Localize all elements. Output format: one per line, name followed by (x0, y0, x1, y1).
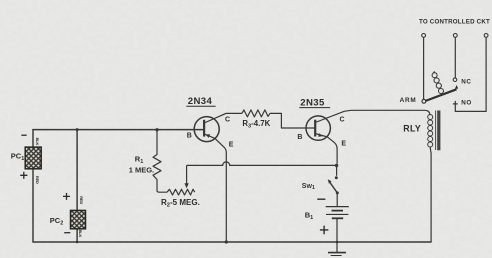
ground (328, 253, 346, 256)
relay armature arrow (455, 85, 458, 89)
label 2N34 (186, 96, 215, 107)
svg-text:TO CONTROLLED CKT: TO CONTROLLED CKT (419, 18, 490, 25)
relay core (436, 111, 441, 151)
label 2N35 (299, 98, 330, 109)
svg-text:NO: NO (461, 99, 471, 106)
switch SW1 (328, 164, 339, 207)
battery B1 (326, 207, 349, 253)
transistor Q1 2N34 (194, 113, 242, 242)
wire R3 to Q2 base (270, 113, 315, 128)
svg-text:B: B (297, 134, 302, 141)
polarity minus PC2 (64, 232, 70, 234)
wire left vertical (32, 130, 34, 242)
resistor R1 (153, 130, 167, 192)
resistor R3 (242, 110, 315, 128)
photocell PC2 (71, 210, 86, 228)
svg-text:B: B (187, 132, 192, 139)
svg-text:RED: RED (35, 176, 40, 184)
svg-text:2N34: 2N34 (188, 96, 213, 107)
relay terminal circles (422, 34, 488, 38)
svg-text:R3-4.7K: R3-4.7K (242, 119, 270, 129)
polarity plus battery (320, 226, 329, 235)
svg-text:1 MEG.: 1 MEG. (129, 165, 154, 174)
node junction bottom rail PC2 (76, 241, 79, 244)
svg-text:C: C (225, 116, 230, 123)
wire wiper to switch junction with hop over emitter wire (187, 162, 337, 165)
polarity plus PC1 (20, 172, 27, 179)
svg-text:RED: RED (79, 196, 84, 204)
node junction bottom rail Q1 emitter (225, 240, 228, 243)
relay armature spring (432, 72, 443, 95)
svg-text:RLY: RLY (403, 124, 421, 134)
transistor Q2 2N35 (306, 110, 430, 164)
wiper arrow of R2 (184, 165, 188, 188)
node junction top rail PC2 (76, 128, 79, 131)
polarity minus PC1 (21, 134, 26, 136)
wire bottom rail (33, 241, 431, 243)
svg-text:E: E (229, 141, 234, 148)
wire PC2 vertical (76, 130, 78, 242)
relay NO contact (453, 101, 458, 104)
wire ARM terminal (423, 37, 425, 99)
svg-text:ARM: ARM (400, 97, 417, 104)
relay RLY coil (428, 115, 433, 243)
relay armature blade (426, 89, 457, 101)
polarity minus battery (317, 198, 325, 200)
relay NC contact (453, 78, 457, 82)
node junction bottom rail battery (336, 241, 339, 244)
photocell PC1 (25, 147, 41, 169)
svg-text:2N35: 2N35 (300, 98, 325, 109)
polarity plus PC2 (63, 193, 70, 200)
svg-text:BLK: BLK (35, 138, 40, 146)
wire top rail (33, 129, 204, 131)
relay armature pivot (422, 99, 426, 103)
svg-text:BLK: BLK (78, 230, 83, 238)
potentiometer R2 (167, 189, 195, 195)
svg-text:E: E (341, 141, 346, 148)
wire NC terminal (454, 37, 456, 78)
node junction top rail R1 (155, 128, 158, 131)
svg-text:C: C (340, 117, 345, 124)
svg-text:NC: NC (461, 79, 471, 86)
wire NO terminal (455, 37, 486, 111)
